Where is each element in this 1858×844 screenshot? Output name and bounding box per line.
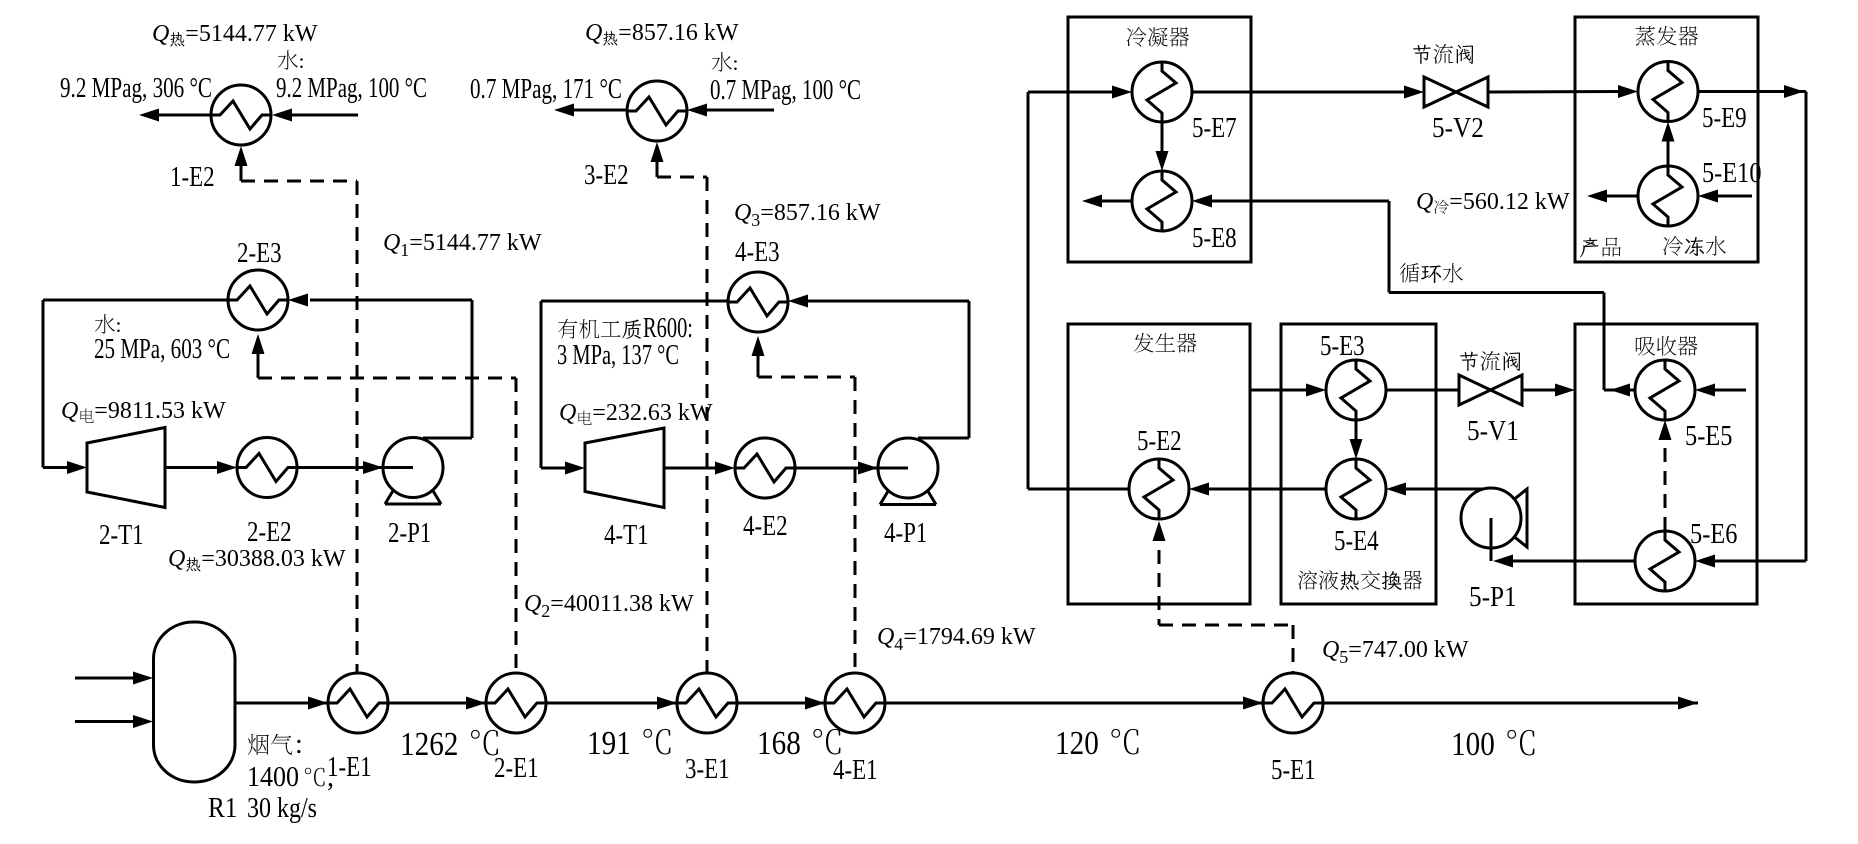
heat exchanger 5-E9 bbox=[1638, 62, 1698, 122]
svg-text:Q: Q bbox=[877, 624, 894, 650]
label 5-E2 bbox=[1137, 426, 1182, 457]
svg-text:5-E8: 5-E8 bbox=[1192, 223, 1237, 254]
svg-text:4-E2: 4-E2 bbox=[743, 511, 788, 542]
svg-text:Q: Q bbox=[61, 398, 78, 424]
svg-text:2-T1: 2-T1 bbox=[99, 520, 144, 551]
absorber unit box 吸收器 bbox=[1575, 324, 1757, 604]
heat exchanger 2-E3 bbox=[228, 270, 288, 330]
wire generator outlet to 5-E3 bbox=[1249, 384, 1326, 397]
svg-text:5-E2: 5-E2 bbox=[1137, 426, 1182, 457]
svg-text:Q: Q bbox=[559, 400, 576, 426]
wire 5-E6 to pump 5-P1 bbox=[1493, 555, 1635, 568]
wire 1-E2 water inlet bbox=[272, 109, 358, 122]
heat exchanger 5-E1 bbox=[1263, 673, 1323, 733]
label 5-E7 bbox=[1192, 113, 1237, 144]
wire 2-T1 to 2-E2 bbox=[165, 461, 237, 474]
label 5-E10 bbox=[1702, 158, 1762, 189]
label Q2 40011.38 bbox=[524, 591, 694, 621]
svg-text:4: 4 bbox=[894, 634, 903, 654]
heat exchanger 5-E7 bbox=[1132, 62, 1192, 122]
wire 5-V1 to absorber bbox=[1522, 384, 1575, 397]
arrow into 2-E1 bbox=[466, 697, 486, 710]
svg-text:1: 1 bbox=[400, 240, 409, 260]
svg-text:2-E2: 2-E2 bbox=[247, 517, 292, 548]
wire 5-E7 to valve 5-V2 bbox=[1192, 86, 1424, 99]
wire 2-E3 outlet to turbine 2-T1 bbox=[43, 300, 228, 474]
wire 4-T1 to 4-E2 bbox=[664, 462, 735, 475]
label 3-E2 bbox=[584, 160, 629, 191]
flue gas exit arrow bbox=[1678, 697, 1698, 710]
heat exchanger 4-E3 bbox=[728, 272, 788, 332]
label water 0.7MPag 171C bbox=[470, 74, 622, 105]
svg-text:4-E3: 4-E3 bbox=[735, 237, 780, 268]
arrow into 5-E1 bbox=[1243, 697, 1263, 710]
label 5-P1 bbox=[1469, 582, 1517, 613]
heat exchanger 2-E2 bbox=[237, 438, 297, 498]
svg-text:5-E6: 5-E6 bbox=[1690, 519, 1737, 550]
label 节流阀 middle bbox=[1460, 351, 1520, 371]
label Qheat 30388.03 bbox=[168, 546, 346, 572]
svg-text:Q: Q bbox=[168, 546, 185, 572]
svg-text:=30388.03 kW: =30388.03 kW bbox=[201, 546, 346, 572]
wire cooling water into 5-E5 bbox=[1695, 384, 1746, 397]
svg-text:=857.16 kW: =857.16 kW bbox=[618, 20, 739, 46]
label 产品 bbox=[1580, 238, 1621, 258]
label 4-E3 bbox=[735, 237, 780, 268]
heat exchanger 4-E2 bbox=[735, 438, 795, 498]
svg-text:120: 120 bbox=[1055, 725, 1099, 762]
heat exchanger 3-E2 bbox=[627, 81, 687, 141]
svg-text:Q: Q bbox=[585, 20, 602, 46]
wire 5-E3 to 5-E4 bbox=[1350, 420, 1363, 459]
pump 2-P1 bbox=[383, 438, 443, 505]
label 5-E1 bbox=[1271, 755, 1316, 786]
svg-text:2: 2 bbox=[541, 601, 550, 621]
svg-text:4-P1: 4-P1 bbox=[884, 518, 927, 549]
svg-text:Q: Q bbox=[524, 591, 541, 617]
label Q5 747.00 bbox=[1322, 637, 1469, 667]
svg-text:Q: Q bbox=[383, 230, 400, 256]
svg-text::: : bbox=[295, 729, 303, 760]
wire cooling water 5-E5 to 5-E8 循环水 bbox=[1192, 195, 1635, 397]
wire 4-P1 discharge to 4-E3 bbox=[788, 295, 969, 439]
label Q1 5144.77 bbox=[383, 230, 542, 260]
pump 5-P1 bbox=[1461, 488, 1527, 561]
label 循环水 bbox=[1400, 263, 1463, 283]
heat exchanger 2-E1 bbox=[486, 673, 546, 733]
wire 3-E2 water inlet bbox=[687, 104, 774, 117]
svg-text:9.2 MPag, 306 °C: 9.2 MPag, 306 °C bbox=[60, 73, 212, 104]
R1 feed arrow 1 bbox=[75, 672, 153, 685]
heat exchanger 5-E6 bbox=[1635, 531, 1695, 591]
generator unit box 发生器 bbox=[1068, 324, 1250, 604]
wire 5-E7 to 5-E8 bbox=[1156, 122, 1169, 171]
label 4-E2 bbox=[743, 511, 788, 542]
label R1 bbox=[208, 793, 237, 824]
svg-text:=5144.77 kW: =5144.77 kW bbox=[185, 21, 318, 47]
heat exchanger 4-E1 bbox=[825, 673, 885, 733]
svg-text:=40011.38 kW: =40011.38 kW bbox=[550, 591, 694, 617]
svg-text:3 MPa, 137 °C: 3 MPa, 137 °C bbox=[557, 340, 679, 371]
svg-text:0.7 MPag, 171 °C: 0.7 MPag, 171 °C bbox=[470, 74, 622, 105]
arrow into 1-E1 bbox=[308, 697, 328, 710]
label 191 C bbox=[587, 725, 670, 762]
heat exchanger 3-E1 bbox=[677, 673, 737, 733]
wire 5-V2 to 5-E9 bbox=[1488, 85, 1638, 98]
arrow into 2-P1 bbox=[363, 461, 383, 474]
svg-text:=9811.53 kW: =9811.53 kW bbox=[94, 398, 226, 424]
svg-text:=5144.77 kW: =5144.77 kW bbox=[409, 230, 542, 256]
label R600 3MPa 137C bbox=[557, 313, 693, 371]
label Qel 9811.53 bbox=[61, 398, 226, 424]
wire 4-E3 outlet to turbine 4-T1 bbox=[541, 301, 728, 475]
wire 5-P1 to 5-E4 bbox=[1386, 483, 1484, 496]
svg-text:5-E4: 5-E4 bbox=[1334, 526, 1379, 557]
label water 25MPa 603C bbox=[94, 313, 230, 365]
label 168 C bbox=[757, 725, 840, 762]
label 100 C bbox=[1451, 726, 1534, 763]
heat link dashes 5-E6 to 5-E5 bbox=[1659, 420, 1672, 531]
wire 2-E2 to pump 2-P1 bbox=[297, 466, 413, 469]
heat link Q5 dashes 5-E2 to 5-E1 bbox=[1153, 521, 1294, 673]
wire 3-E2 water outlet bbox=[554, 104, 627, 117]
arrow into 3-E1 bbox=[657, 697, 677, 710]
svg-text:1-E1: 1-E1 bbox=[327, 752, 372, 783]
reactor R1 vessel bbox=[154, 622, 236, 782]
solution heat exchanger box 溶液热交换器 bbox=[1281, 324, 1436, 604]
heat link Q4 dashes 4-E3 to 4-E1 bbox=[752, 336, 856, 673]
wire 4-E2 to pump 4-P1 bbox=[795, 467, 908, 470]
svg-text:1-E2: 1-E2 bbox=[170, 162, 215, 193]
throttle valve 5-V1 bbox=[1459, 375, 1522, 405]
label 2-E3 bbox=[237, 238, 282, 269]
wire 1-E2 water outlet bbox=[139, 109, 211, 122]
label 2-T1 bbox=[99, 520, 144, 551]
svg-text:5-E10: 5-E10 bbox=[1702, 158, 1762, 189]
svg-text:100: 100 bbox=[1451, 726, 1495, 763]
svg-text:=232.63 kW: =232.63 kW bbox=[592, 400, 713, 426]
svg-text:3-E1: 3-E1 bbox=[685, 754, 730, 785]
svg-text:=747.00 kW: =747.00 kW bbox=[1348, 637, 1469, 663]
label Q3 857.16 bbox=[734, 200, 881, 230]
heat exchanger 5-E10 bbox=[1638, 166, 1698, 226]
svg-text:5-V1: 5-V1 bbox=[1467, 416, 1519, 447]
heat exchanger 5-E4 bbox=[1326, 459, 1386, 519]
svg-text:R1: R1 bbox=[208, 793, 237, 824]
wire 5-E3 to valve 5-V1 bbox=[1386, 389, 1459, 392]
svg-text:3: 3 bbox=[751, 210, 760, 230]
label 1-E2 bbox=[170, 162, 215, 193]
pump 4-P1 bbox=[878, 438, 938, 505]
label 3-E1 bbox=[685, 754, 730, 785]
svg-text:25 MPa, 603 °C: 25 MPa, 603 °C bbox=[94, 334, 230, 365]
label 2-E2 bbox=[247, 517, 292, 548]
label water 9.2MPag 100C bbox=[276, 49, 427, 104]
svg-text:Q: Q bbox=[734, 200, 751, 226]
svg-text:3-E2: 3-E2 bbox=[584, 160, 629, 191]
svg-text:=1794.69 kW: =1794.69 kW bbox=[903, 624, 1036, 650]
svg-text:4-T1: 4-T1 bbox=[604, 520, 649, 551]
svg-text:5: 5 bbox=[1339, 647, 1348, 667]
flue gas main line bbox=[235, 702, 1698, 705]
svg-text:2-P1: 2-P1 bbox=[388, 518, 431, 549]
svg-text:2-E1: 2-E1 bbox=[494, 753, 539, 784]
label 1-E1 bbox=[327, 752, 372, 783]
svg-text:4-E1: 4-E1 bbox=[833, 755, 878, 786]
R1 feed arrow 2 bbox=[75, 715, 153, 728]
svg-text:30 kg/s: 30 kg/s bbox=[247, 793, 317, 824]
heat link Q2 dashes 2-E3 to 2-E1 bbox=[252, 334, 517, 673]
label 2-P1 bbox=[388, 518, 431, 549]
heat exchanger 1-E1 bbox=[328, 673, 388, 733]
label Q4 1794.69 bbox=[877, 624, 1036, 654]
label 2-E1 bbox=[494, 753, 539, 784]
label 节流阀 top bbox=[1413, 44, 1473, 64]
svg-text:5-E9: 5-E9 bbox=[1702, 103, 1747, 134]
label 5-E6 bbox=[1690, 519, 1737, 550]
svg-text:=857.16 kW: =857.16 kW bbox=[760, 200, 881, 226]
wire chilled water into 5-E10 bbox=[1698, 190, 1752, 203]
label 4-E1 bbox=[833, 755, 878, 786]
svg-text:9.2 MPag, 100 °C: 9.2 MPag, 100 °C bbox=[276, 73, 427, 104]
wire cooling water out of 5-E8 bbox=[1082, 195, 1132, 208]
wire 2-P1 discharge to 2-E3 bbox=[288, 294, 472, 439]
svg-text:Q: Q bbox=[152, 21, 169, 47]
svg-text:1400: 1400 bbox=[247, 762, 299, 793]
label 5-E4 bbox=[1334, 526, 1379, 557]
heat exchanger 5-E5 bbox=[1635, 360, 1695, 420]
flue gas stream labels 烟气 1400C 30kg/s bbox=[247, 729, 334, 824]
label 冷冻水 bbox=[1663, 236, 1726, 256]
svg-text:1262: 1262 bbox=[400, 726, 458, 763]
heat link Q3 dashes 3-E2 to 3-E1 bbox=[651, 142, 708, 673]
svg-text:=560.12 kW: =560.12 kW bbox=[1449, 189, 1570, 215]
evaporator unit box 蒸发器 bbox=[1575, 17, 1758, 262]
label 5-V1 bbox=[1467, 416, 1519, 447]
heat link Q1 dashes 1-E2 to 1-E1 bbox=[235, 146, 358, 673]
condenser unit box 冷凝器 bbox=[1068, 17, 1251, 262]
wire 5-E4 to 5-E2 bbox=[1189, 483, 1326, 496]
label Qheat 857.16 bbox=[585, 20, 739, 46]
wire 5-E9 outlet down to 5-E6 bbox=[1695, 85, 1806, 568]
label Qcool 560.12 bbox=[1416, 189, 1570, 215]
svg-text:2-E3: 2-E3 bbox=[237, 238, 282, 269]
label 5-E8 bbox=[1192, 223, 1237, 254]
svg-text:Q: Q bbox=[1322, 637, 1339, 663]
label 5-E9 bbox=[1702, 103, 1747, 134]
label Qheat 5144.77 bbox=[152, 21, 318, 47]
label Qel 232.63 bbox=[559, 400, 713, 426]
wire product out of 5-E10 bbox=[1587, 190, 1638, 203]
wire 5-E10 to 5-E9 bbox=[1662, 122, 1675, 167]
heat exchanger 5-E8 bbox=[1132, 171, 1192, 231]
heat exchanger 5-E2 bbox=[1129, 459, 1189, 519]
svg-text:191: 191 bbox=[587, 725, 631, 762]
wire generator vapor 5-E2 to 5-E7 bbox=[1028, 86, 1132, 490]
svg-text::: : bbox=[299, 49, 305, 73]
label 5-E3 bbox=[1320, 331, 1365, 362]
turbine 2-T1 bbox=[87, 428, 165, 508]
label 5-E5 bbox=[1685, 421, 1732, 452]
label 5-V2 bbox=[1432, 113, 1484, 144]
heat exchanger 5-E3 bbox=[1326, 360, 1386, 420]
svg-text:0.7 MPag, 100 °C: 0.7 MPag, 100 °C bbox=[710, 75, 861, 106]
svg-text:168: 168 bbox=[757, 725, 801, 762]
heat exchanger 1-E2 bbox=[211, 85, 271, 145]
throttle valve 5-V2 bbox=[1424, 77, 1488, 107]
svg-text:Q: Q bbox=[1416, 189, 1433, 215]
svg-text:5-E7: 5-E7 bbox=[1192, 113, 1237, 144]
label water 9.2MPag 306C bbox=[60, 73, 212, 104]
label 1262 C bbox=[400, 726, 498, 763]
label water 0.7MPag 100C bbox=[710, 51, 861, 106]
svg-text:5-E1: 5-E1 bbox=[1271, 755, 1316, 786]
arrow into 4-P1 bbox=[858, 462, 878, 475]
label 4-P1 bbox=[884, 518, 927, 549]
svg-text:5-V2: 5-V2 bbox=[1432, 113, 1484, 144]
svg-text::: : bbox=[733, 51, 739, 75]
label 4-T1 bbox=[604, 520, 649, 551]
turbine 4-T1 bbox=[585, 428, 664, 508]
label 120 C bbox=[1055, 725, 1138, 762]
svg-text:5-P1: 5-P1 bbox=[1469, 582, 1517, 613]
svg-text:5-E3: 5-E3 bbox=[1320, 331, 1365, 362]
svg-text:5-E5: 5-E5 bbox=[1685, 421, 1732, 452]
arrow into 4-E1 bbox=[805, 697, 825, 710]
